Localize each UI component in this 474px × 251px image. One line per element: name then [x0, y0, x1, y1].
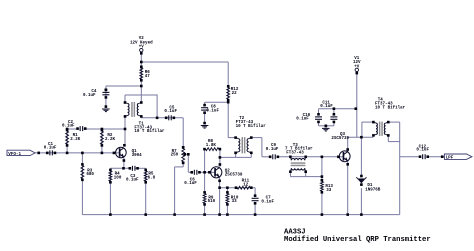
svg-text:VFO-1: VFO-1 [8, 152, 21, 157]
svg-text:33: 33 [232, 200, 238, 204]
svg-text:2.2K: 2.2K [105, 138, 116, 142]
svg-text:33: 33 [326, 189, 332, 193]
svg-text:22: 22 [232, 92, 238, 96]
svg-text:0.1uF: 0.1uF [83, 94, 96, 98]
svg-text:250: 250 [171, 154, 179, 158]
svg-text:1N976B: 1N976B [365, 189, 381, 193]
svg-text:10 T Bifilar: 10 T Bifilar [134, 129, 165, 134]
svg-text:0.1uF: 0.1uF [206, 109, 219, 113]
svg-text:0.1uF: 0.1uF [126, 179, 139, 183]
svg-text:10 T Bifilar: 10 T Bifilar [236, 124, 267, 129]
svg-text:2.2K: 2.2K [70, 138, 81, 142]
svg-text:LPF: LPF [446, 156, 454, 161]
svg-text:0.1uF: 0.1uF [296, 118, 309, 122]
svg-text:0.1uF: 0.1uF [320, 105, 333, 109]
svg-text:D1: D1 [367, 184, 373, 188]
svg-text:0.1uF: 0.1uF [416, 149, 429, 153]
svg-text:0.1uF: 0.1uF [261, 201, 274, 205]
svg-text:Modified Universal QRP Transmi: Modified Universal QRP Transmitter [284, 236, 431, 244]
svg-text:0.1uF: 0.1uF [184, 182, 197, 186]
svg-text:47: 47 [145, 75, 151, 79]
svg-text:0.1uF: 0.1uF [62, 125, 75, 129]
svg-text:680: 680 [86, 173, 94, 177]
svg-text:3904: 3904 [132, 154, 143, 158]
svg-text:510: 510 [208, 200, 216, 204]
svg-text:2SC5739: 2SC5739 [225, 173, 243, 177]
svg-text:100: 100 [114, 176, 122, 180]
svg-text:6.8: 6.8 [148, 176, 156, 180]
svg-text:0.1uF: 0.1uF [266, 148, 279, 152]
svg-text:12: 12 [243, 183, 249, 187]
svg-text:0.1uF: 0.1uF [44, 147, 57, 151]
svg-text:0.1uF: 0.1uF [164, 110, 177, 114]
svg-text:2SC5739: 2SC5739 [331, 137, 349, 141]
svg-text:1.8K: 1.8K [206, 144, 217, 148]
svg-text:10 T Bifilar: 10 T Bifilar [375, 105, 406, 110]
svg-text:FT37-43: FT37-43 [286, 152, 304, 156]
svg-text:12V Keyed: 12V Keyed [130, 40, 153, 45]
